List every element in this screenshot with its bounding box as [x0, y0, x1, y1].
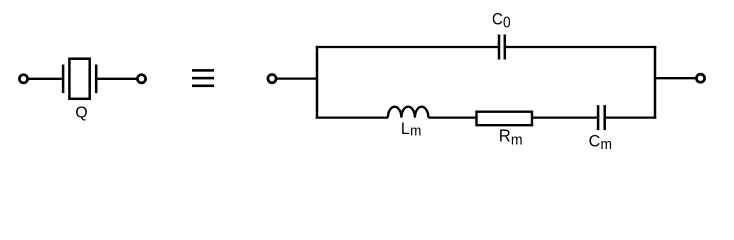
- node: network left terminal: [268, 75, 276, 83]
- svg-text:Cm: Cm: [589, 131, 612, 152]
- inductor Lm: [388, 107, 429, 118]
- wire: top branch right of C0: [506, 46, 656, 48]
- node: crystal right terminal: [137, 75, 145, 83]
- svg-text:Lm: Lm: [401, 119, 421, 139]
- svg-text:Rm: Rm: [499, 126, 523, 148]
- wire: Cm to right rail: [606, 116, 656, 118]
- wire: right rail to right terminal: [655, 77, 696, 79]
- crystal Q left plate: [62, 65, 65, 94]
- capacitor Cm left plate: [597, 105, 600, 130]
- node: network right terminal: [696, 74, 704, 82]
- wire: left rail: [316, 46, 319, 119]
- node: crystal left terminal: [19, 75, 27, 83]
- wire: left terminal to left rail: [277, 77, 318, 79]
- wire: Rm to Cm: [532, 116, 597, 118]
- wire: crystal right lead: [98, 78, 138, 80]
- crystal Q body: [69, 59, 89, 99]
- svg-text:Q: Q: [75, 104, 87, 121]
- capacitor Cm right plate: [603, 105, 606, 130]
- wire: Lm to Rm: [428, 116, 476, 118]
- equivalence symbol: [192, 69, 214, 87]
- wire: crystal left lead: [28, 78, 62, 80]
- wire: bottom branch left of Lm: [316, 116, 388, 118]
- wire: right rail: [654, 46, 657, 119]
- crystal Q right plate: [95, 65, 98, 94]
- svg-text:C0: C0: [492, 11, 511, 32]
- resistor Rm body: [477, 112, 533, 126]
- capacitor C0 right plate: [504, 35, 507, 60]
- capacitor C0 left plate: [498, 35, 501, 60]
- wire: top branch left of C0: [316, 46, 498, 48]
